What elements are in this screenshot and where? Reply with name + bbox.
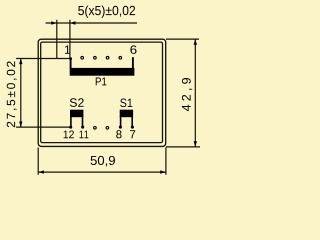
bottom dimension extension line right — [165, 148, 167, 175]
right dimension extension line bottom — [166, 146, 200, 148]
pin 1 label — [65, 46, 70, 54]
transformer body outline (inner) — [41, 42, 163, 143]
pitch dimension arrow left — [51, 21, 57, 24]
bottom dimension value 50,9 — [91, 156, 115, 167]
left dimension arrow down — [19, 122, 22, 128]
right dimension line — [194, 39, 196, 147]
pitch dimension line — [46, 22, 138, 24]
left dimension line — [20, 59, 22, 128]
pitch dimension extension line a — [56, 20, 58, 59]
winding label S2 — [70, 98, 84, 107]
pin 9 pad — [106, 127, 109, 130]
pin 4 pad — [106, 56, 109, 59]
pin 8 lead — [120, 116, 122, 126]
pitch dimension arrow right — [70, 21, 76, 24]
right dimension arrow down — [194, 141, 197, 147]
pin 1 junction pad — [69, 57, 72, 60]
primary winding bar P1 — [70, 68, 135, 76]
pin 6 lead — [132, 57, 134, 68]
right dimension value 42,9 — [182, 78, 192, 111]
bottom dimension arrow left — [38, 170, 44, 173]
pitch dimension extension line b — [69, 20, 71, 59]
bottom dimension line — [38, 171, 166, 173]
pin 10 pad — [94, 127, 97, 130]
winding label S1 — [120, 98, 132, 107]
secondary winding S2 body — [70, 110, 83, 118]
winding label P1 — [96, 77, 107, 85]
left dimension arrow up — [19, 59, 22, 65]
pin 12 lead — [70, 116, 72, 126]
pin 2 pad — [81, 56, 84, 59]
left dimension extension line bottom — [16, 126, 70, 128]
pin 8 label — [116, 130, 121, 138]
bottom dimension extension line left — [37, 148, 39, 175]
pin 7 label — [130, 130, 135, 138]
pin 7 lead — [131, 116, 133, 126]
secondary winding S1 body — [120, 110, 133, 118]
pin 11 label — [80, 131, 89, 139]
left dimension value 27,5±0,02 — [7, 61, 17, 127]
pin 12 pad — [69, 126, 72, 129]
bottom dimension arrow right — [160, 170, 166, 173]
pin 3 pad — [94, 56, 97, 59]
pin 12 label — [64, 131, 74, 139]
pin 1 lead — [70, 58, 72, 68]
left dimension extension line top — [16, 58, 70, 60]
pin 5 pad — [119, 56, 122, 59]
pin 11 pad — [81, 126, 84, 129]
right dimension arrow up — [194, 39, 197, 45]
transformer body outline (outer) — [38, 39, 166, 146]
pin 6 label — [130, 45, 136, 54]
pin 11 lead — [82, 116, 84, 126]
right dimension extension line top — [166, 38, 199, 40]
pin 7 pad — [131, 126, 134, 129]
pin 8 pad — [119, 126, 122, 129]
pitch dimension value 5(x5)±0,02 — [78, 5, 135, 17]
